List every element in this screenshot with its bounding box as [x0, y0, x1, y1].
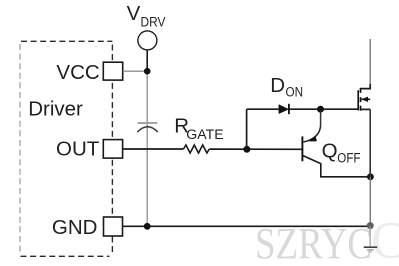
svg-text:GND: GND [52, 216, 98, 239]
svg-text:OUT: OUT [56, 138, 100, 161]
wire source to ground rail [369, 177, 371, 227]
wire GND rail [123, 225, 371, 227]
pin GND [104, 217, 123, 236]
label DON [270, 74, 303, 100]
node collector junction dot [367, 173, 374, 180]
capacitor bottom plate arc [137, 127, 158, 132]
MOSFET body arrow [361, 97, 368, 102]
label VDRV [127, 2, 166, 30]
MOSFET body wire [362, 98, 371, 100]
MOSFET source vertical wire [369, 109, 371, 176]
QOFF emitter arrow [309, 136, 317, 142]
wire QOFF emitter vertical [320, 111, 322, 125]
resistor RGATE [184, 145, 210, 153]
diode DON cathode bar [288, 104, 290, 114]
node GND right junction dot [367, 222, 374, 229]
node diode output junction dot [317, 106, 324, 113]
driver block dashed box [21, 41, 113, 256]
QOFF collector path [303, 156, 370, 177]
MOSFET channel segment bottom [360, 106, 362, 111]
svg-text:Driver: Driver [28, 97, 83, 120]
MOSFET drain wire top [369, 39, 371, 84]
svg-text:Q: Q [322, 140, 338, 163]
node VCC junction dot [144, 68, 151, 75]
wire resistor to QOFF base [209, 148, 302, 150]
svg-text:V: V [127, 2, 141, 25]
wire VDRV circle to VCC node [146, 50, 148, 71]
node A junction dot [243, 146, 250, 153]
wire VCC vertical rail [146, 71, 148, 226]
driver box left edge (faint) [19, 44, 21, 253]
MOSFET gate bar [357, 90, 359, 110]
wire diode to MOSFET gate [289, 108, 358, 110]
pin OUT [103, 140, 122, 159]
svg-text:DRV: DRV [141, 15, 166, 30]
MOSFET source horizontal [361, 108, 371, 110]
QOFF emitter curve [304, 125, 321, 142]
label QOFF [322, 140, 361, 166]
MOSFET channel segment middle [360, 97, 362, 102]
ground bar 1 [364, 246, 378, 248]
svg-text:C: C [371, 213, 399, 266]
node GND cap junction dot [144, 223, 151, 230]
svg-text:GATE: GATE [186, 127, 223, 142]
wire node A up to diode rail [246, 109, 248, 149]
ground bar 3 [369, 251, 372, 253]
MOSFET channel segment top [360, 88, 362, 93]
wire rail to diode anode [247, 108, 279, 110]
capacitor top plate [138, 122, 158, 124]
svg-text:OFF: OFF [337, 151, 360, 166]
wire VCC pin to node [123, 70, 147, 72]
diode DON triangle [279, 104, 289, 114]
transistor QOFF base bar [301, 136, 303, 161]
svg-text:VCC: VCC [56, 61, 99, 84]
label RGATE [174, 114, 223, 142]
ground bar 2 [367, 249, 374, 251]
pin VCC [103, 62, 122, 80]
supply VDRV circle [138, 31, 157, 50]
MOSFET drain elbow [361, 84, 371, 89]
svg-text:D: D [270, 74, 285, 97]
wire OUT pin to resistor [123, 148, 184, 150]
svg-text:ON: ON [286, 85, 304, 100]
ground stem [369, 226, 371, 246]
